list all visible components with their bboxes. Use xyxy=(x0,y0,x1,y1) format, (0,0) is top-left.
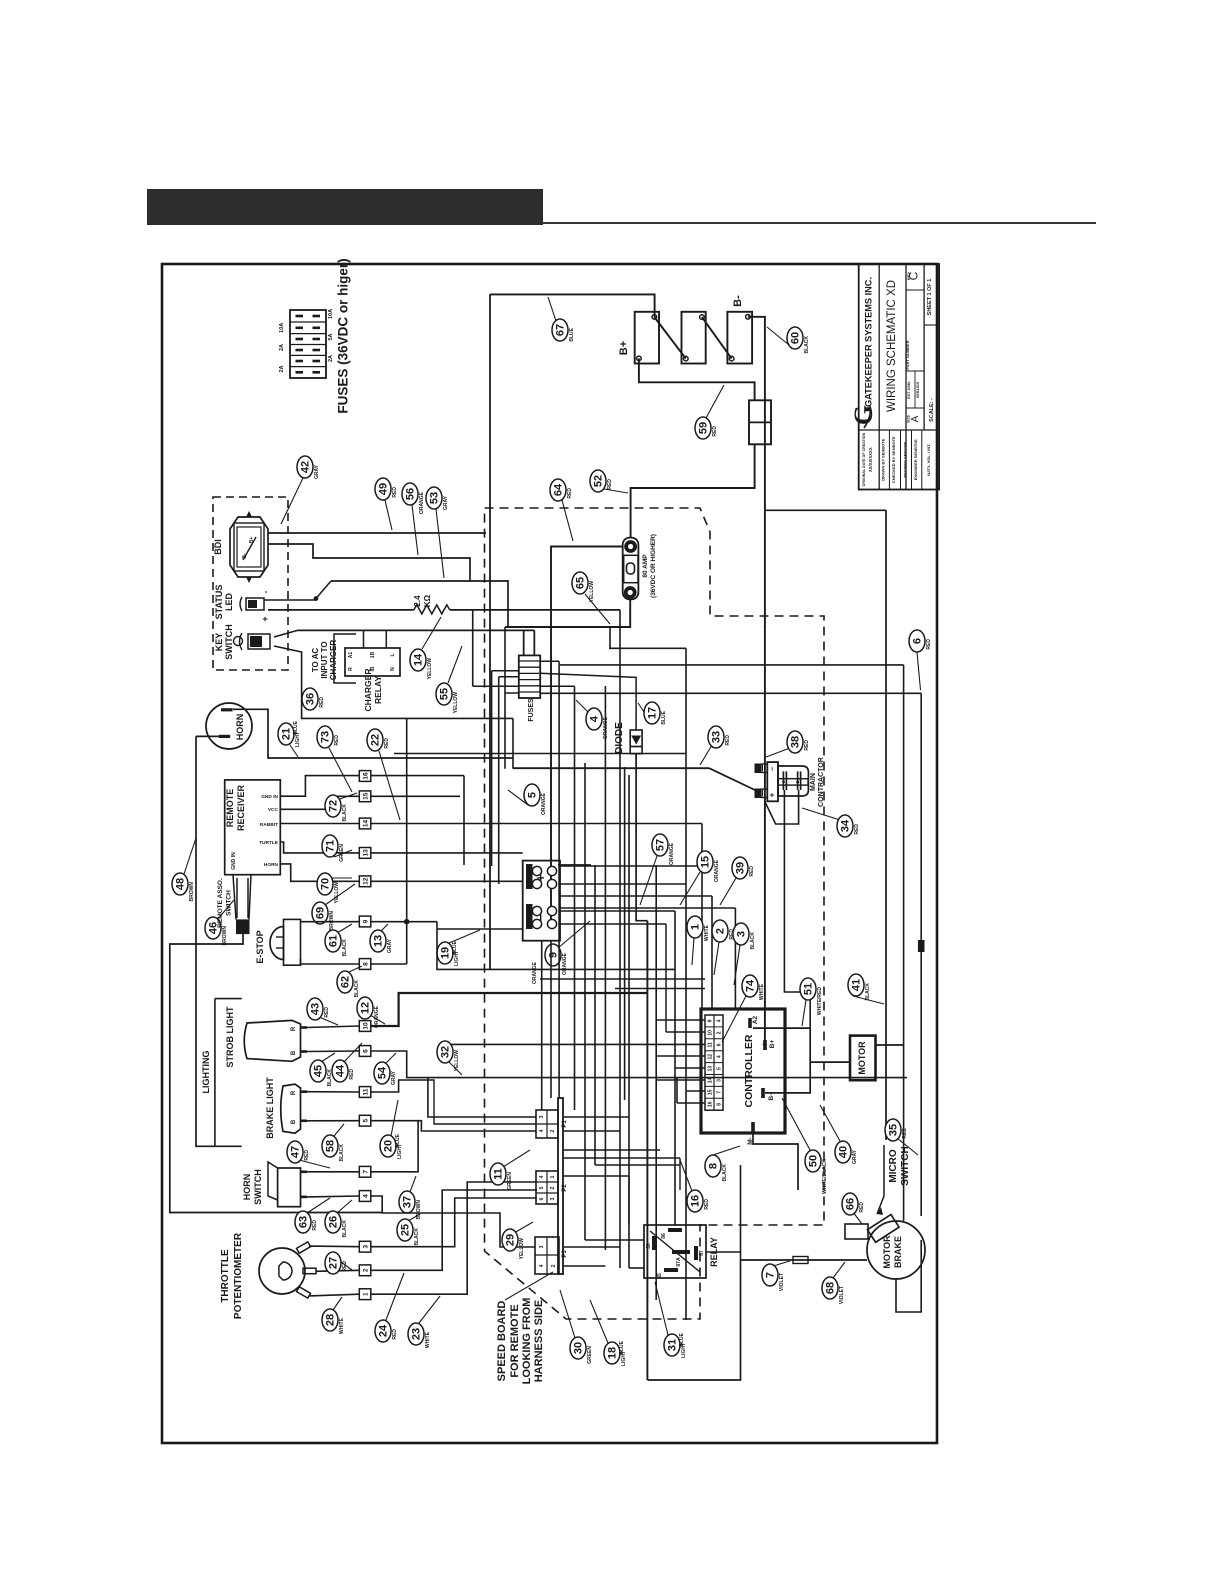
controller terminals xyxy=(748,1018,752,1028)
svg-text:50: 50 xyxy=(808,1155,820,1167)
svg-text:2: 2 xyxy=(550,1129,556,1132)
battery jumper 2 xyxy=(702,317,732,359)
wire 56 BDI xyxy=(268,544,470,581)
svg-text:YELLOW: YELLOW xyxy=(427,658,433,680)
svg-text:BLACK: BLACK xyxy=(339,1144,345,1162)
svg-text:PART NUMBER: PART NUMBER xyxy=(905,340,910,369)
svg-text:3: 3 xyxy=(539,1245,545,1248)
svg-text:54: 54 xyxy=(377,1066,389,1079)
svg-text:11: 11 xyxy=(363,1088,370,1095)
svg-text:L: L xyxy=(390,653,396,656)
svg-text:BLUE: BLUE xyxy=(661,710,667,724)
svg-text:B+: B+ xyxy=(769,1040,776,1049)
fuse block right wires xyxy=(540,660,559,662)
wire 65 breaker bottom xyxy=(505,599,630,627)
svg-text:NAT'L VOL. / INT.: NAT'L VOL. / INT. xyxy=(926,444,931,476)
wire M- down xyxy=(753,1127,798,1190)
svg-text:LOOKING FROM: LOOKING FROM xyxy=(521,1298,533,1385)
svg-text:87A: 87A xyxy=(676,1257,682,1267)
remote receiver U2 xyxy=(225,780,281,875)
svg-text:60: 60 xyxy=(790,332,802,344)
svg-text:48: 48 xyxy=(175,878,187,890)
svg-text:41: 41 xyxy=(851,979,863,991)
battery cell B1 xyxy=(635,312,659,364)
svg-text:1: 1 xyxy=(550,1175,556,1178)
wire 58 brake B xyxy=(307,1120,359,1122)
svg-text:RED: RED xyxy=(324,1007,330,1018)
svg-text:6: 6 xyxy=(912,638,924,644)
svg-text:STATUS: STATUS xyxy=(214,585,224,620)
svg-text:6: 6 xyxy=(539,1197,545,1200)
wire 71 turtle xyxy=(280,842,359,853)
svg-text:73: 73 xyxy=(320,731,332,743)
svg-text:B: B xyxy=(291,1119,297,1124)
svg-text:3: 3 xyxy=(539,1115,545,1118)
svg-text:BLACK: BLACK xyxy=(342,804,348,822)
svg-text:POTENTIOMETER: POTENTIOMETER xyxy=(233,1232,244,1319)
svg-text:RABBIT: RABBIT xyxy=(260,822,278,828)
svg-text:A: A xyxy=(910,415,921,422)
throttle potentiometer R2 xyxy=(259,1248,305,1294)
svg-text:47: 47 xyxy=(290,1146,302,1158)
speed board edge xyxy=(558,1098,563,1274)
micro switch S4 xyxy=(867,1215,899,1243)
svg-text:10A: 10A xyxy=(279,323,285,333)
svg-text:57: 57 xyxy=(655,839,667,851)
relay wires xyxy=(585,1239,644,1241)
svg-text:GREEN: GREEN xyxy=(339,844,345,862)
wire 7 violet xyxy=(706,1251,741,1253)
svg-text:BLUE: BLUE xyxy=(679,1332,685,1346)
svg-text:YELLOW: YELLOW xyxy=(453,692,459,714)
diode D1 xyxy=(630,730,642,754)
svg-text:14: 14 xyxy=(708,1078,714,1084)
wire 57 orange xyxy=(640,856,657,905)
svg-text:2A: 2A xyxy=(328,355,334,362)
svg-text:GREEN: GREEN xyxy=(587,1346,593,1364)
svg-text:4: 4 xyxy=(589,715,601,722)
svg-text:13: 13 xyxy=(363,849,370,857)
terminal block TB1 xyxy=(523,861,560,941)
svg-text:RED: RED xyxy=(704,1199,710,1210)
svg-text:SCALE: -: SCALE: - xyxy=(929,398,935,422)
svg-text:RELAY: RELAY xyxy=(373,676,383,704)
wire 23 white xyxy=(371,1182,537,1294)
svg-text:SHEET 1 OF 1: SHEET 1 OF 1 xyxy=(927,279,933,316)
svg-text:FOR REMOTE: FOR REMOTE xyxy=(509,1304,521,1377)
svg-text:8: 8 xyxy=(708,1163,720,1169)
svg-text:5A: 5A xyxy=(328,333,334,340)
BDI meter M1 xyxy=(230,517,268,577)
wire 21 gnd in xyxy=(280,776,359,797)
svg-text:63: 63 xyxy=(298,1216,310,1228)
svg-text:38: 38 xyxy=(790,736,802,748)
svg-text:28: 28 xyxy=(325,1314,337,1326)
fuse block left wires xyxy=(473,685,519,687)
horn switch S3 xyxy=(278,1168,301,1207)
svg-text:9: 9 xyxy=(708,1019,714,1022)
wire 20 light blue xyxy=(371,1080,428,1092)
wire motor feed xyxy=(810,1061,850,1063)
svg-text:HARNESS SIDE: HARNESS SIDE xyxy=(533,1300,545,1383)
svg-text:GATEKEEPER SYSTEMS INC.: GATEKEEPER SYSTEMS INC. xyxy=(864,277,874,407)
wire charger relay drops xyxy=(363,630,365,648)
svg-text:17: 17 xyxy=(647,707,659,719)
svg-text:27: 27 xyxy=(328,1257,340,1269)
wire key lower 36 xyxy=(274,646,513,718)
svg-text:−: − xyxy=(770,767,777,771)
svg-text:RED: RED xyxy=(349,1069,355,1080)
svg-text:ORANGE: ORANGE xyxy=(532,961,538,984)
svg-text:WHITE: WHITE xyxy=(704,924,710,941)
svg-text:52: 52 xyxy=(593,475,605,487)
svg-text:35: 35 xyxy=(888,1124,900,1136)
svg-text:CONTRACTOR: CONTRACTOR xyxy=(818,757,825,807)
svg-text:WHITE/RED: WHITE/RED xyxy=(817,987,823,1015)
svg-text:51: 51 xyxy=(803,983,815,995)
svg-text:LED: LED xyxy=(224,592,234,611)
svg-text:BLUE: BLUE xyxy=(452,940,458,954)
svg-text:3: 3 xyxy=(550,1197,556,1200)
svg-text:30: 30 xyxy=(646,1243,652,1249)
svg-text:CONTROLLER: CONTROLLER xyxy=(743,1034,755,1107)
wire 43 strobe R xyxy=(307,1026,359,1028)
svg-text:33: 33 xyxy=(711,731,723,743)
svg-text:2.4: 2.4 xyxy=(413,595,422,607)
svg-text:29: 29 xyxy=(505,1234,517,1246)
svg-text:2: 2 xyxy=(550,1186,556,1189)
svg-text:16: 16 xyxy=(363,772,370,780)
wire 27 pot 2 xyxy=(316,1270,359,1271)
svg-text:45: 45 xyxy=(313,1065,325,1077)
svg-text:FUSES (36VDC or higer): FUSES (36VDC or higer) xyxy=(336,258,351,413)
svg-text:+: + xyxy=(260,616,270,621)
svg-text:BROWN: BROWN xyxy=(329,911,335,931)
svg-text:YELLOW: YELLOW xyxy=(454,1050,460,1072)
svg-text:18: 18 xyxy=(607,1347,619,1359)
svg-text:21: 21 xyxy=(281,728,293,740)
svg-text:10: 10 xyxy=(708,1030,714,1036)
svg-text:67: 67 xyxy=(555,324,567,336)
svg-text:GRAY: GRAY xyxy=(852,1149,858,1164)
svg-text:RED: RED xyxy=(804,740,810,751)
connector P1 xyxy=(536,1110,558,1138)
main contactor K1 xyxy=(767,762,778,801)
wire 70 horn pin xyxy=(280,864,359,881)
svg-text:13: 13 xyxy=(708,1066,714,1072)
svg-text:EST ASM.: EST ASM. xyxy=(907,381,911,399)
svg-text:19: 19 xyxy=(440,947,452,959)
svg-text:80 AMP: 80 AMP xyxy=(642,554,649,578)
wire 66 red xyxy=(845,1224,868,1239)
wire 45 strobe B xyxy=(307,1050,359,1053)
brake wires xyxy=(896,1240,921,1312)
motor brake B1 xyxy=(867,1221,925,1279)
svg-text:A2: A2 xyxy=(752,1015,759,1024)
svg-text:MOTOR: MOTOR xyxy=(857,1041,867,1075)
svg-text:2A: 2A xyxy=(279,344,285,351)
svg-text:34: 34 xyxy=(840,819,852,832)
svg-text:WHITE: WHITE xyxy=(339,1317,345,1334)
svg-text:3: 3 xyxy=(363,1245,370,1249)
receiver plug xyxy=(233,875,236,920)
title block outer xyxy=(859,264,939,490)
svg-text:59: 59 xyxy=(698,422,710,434)
svg-text:YELLOW: YELLOW xyxy=(519,1238,525,1260)
svg-text:THROTTLE: THROTTLE xyxy=(220,1249,231,1303)
svg-text:30: 30 xyxy=(573,1342,585,1354)
svg-text:RED: RED xyxy=(312,1220,318,1231)
svg-text:65: 65 xyxy=(575,577,587,589)
svg-text:32: 32 xyxy=(440,1046,452,1058)
lighting bracket xyxy=(214,999,216,1147)
svg-text:4: 4 xyxy=(539,1264,545,1267)
svg-text:GND IN: GND IN xyxy=(261,794,278,800)
wire 25b xyxy=(371,1198,537,1247)
svg-text:GRAY: GRAY xyxy=(391,1070,397,1085)
svg-text:WHITE: WHITE xyxy=(425,1331,431,1348)
svg-text:E-STOP: E-STOP xyxy=(255,930,265,963)
wire 17 blue xyxy=(636,754,647,921)
svg-text:12: 12 xyxy=(363,877,370,885)
wire 37 brown xyxy=(371,1121,418,1172)
svg-text:70: 70 xyxy=(320,878,332,890)
status LED D2 xyxy=(246,598,264,610)
svg-text:RED: RED xyxy=(304,1150,310,1161)
svg-text:XX/XX/XXXX: XX/XX/XXXX xyxy=(868,447,873,472)
svg-text:7: 7 xyxy=(363,1170,370,1174)
svg-text:2A: 2A xyxy=(279,365,285,372)
svg-text:ORANGE: ORANGE xyxy=(562,952,568,975)
svg-text:GND IN: GND IN xyxy=(231,852,237,870)
svg-text:ORANGE: ORANGE xyxy=(541,792,547,815)
title block grid xyxy=(878,264,880,490)
svg-text:4: 4 xyxy=(717,1019,723,1022)
svg-text:ORANGE: ORANGE xyxy=(419,491,425,514)
svg-text:14: 14 xyxy=(363,820,370,828)
svg-text:10: 10 xyxy=(363,1022,370,1030)
wire 40 gray vertical xyxy=(560,664,904,666)
svg-text:RED: RED xyxy=(342,1261,348,1272)
resistor R1 2.4K xyxy=(414,605,450,614)
wire 22 rabbit xyxy=(280,823,359,825)
svg-text:56: 56 xyxy=(405,488,417,500)
e-stop switch S2 xyxy=(284,919,301,965)
wire 48 brown left bus xyxy=(170,934,382,1213)
wire 49 BDI B+ xyxy=(268,532,486,534)
svg-text:KEY: KEY xyxy=(214,633,224,652)
svg-text:31: 31 xyxy=(667,1339,679,1351)
svg-text:P2: P2 xyxy=(562,1184,568,1192)
svg-text:68: 68 xyxy=(825,1282,837,1294)
svg-text:87: 87 xyxy=(699,1250,705,1256)
svg-text:CHECKED BY SENBOTE: CHECKED BY SENBOTE xyxy=(891,436,896,483)
svg-text:RECEIVER: RECEIVER xyxy=(236,784,246,831)
inline fuse holder F2 xyxy=(749,400,771,444)
dashed BDI enclosure xyxy=(213,497,288,670)
wire 26 pot 3 xyxy=(309,1245,359,1248)
svg-text:BLUE: BLUE xyxy=(293,720,299,734)
terminal block to board wires xyxy=(541,941,543,1110)
svg-text:15: 15 xyxy=(700,856,712,868)
svg-text:SWITCH: SWITCH xyxy=(253,1169,263,1205)
svg-text:KΩ: KΩ xyxy=(423,594,432,607)
svg-text:R: R xyxy=(291,1090,297,1095)
svg-text:23: 23 xyxy=(411,1328,423,1340)
svg-text:44: 44 xyxy=(335,1064,347,1077)
svg-text:43: 43 xyxy=(310,1003,322,1015)
svg-text:BLACK: BLACK xyxy=(414,1228,420,1246)
svg-text:2: 2 xyxy=(717,1031,723,1034)
contactor coil wires xyxy=(765,790,799,824)
svg-text:RED: RED xyxy=(712,426,718,437)
wire status minus xyxy=(268,609,414,611)
wire 61 e-stop top xyxy=(301,921,360,923)
svg-text:7: 7 xyxy=(765,1272,777,1278)
svg-text:66: 66 xyxy=(845,1198,857,1210)
svg-text:SEB1015: SEB1015 xyxy=(916,382,920,398)
svg-text:YELLOW: YELLOW xyxy=(334,882,340,904)
wire 35 red xyxy=(918,940,925,952)
wire 59 B+ to fuse xyxy=(639,358,755,400)
svg-text:SWITCH: SWITCH xyxy=(224,624,234,660)
wire 64 breaker top xyxy=(551,547,623,926)
wire 4 orange xyxy=(574,686,576,769)
svg-text:4: 4 xyxy=(539,1129,545,1132)
svg-text:STROB LIGHT: STROB LIGHT xyxy=(225,1006,235,1067)
svg-text:ORANGE: ORANGE xyxy=(374,1005,380,1028)
svg-text:22: 22 xyxy=(370,734,382,746)
battery jumper 1 xyxy=(654,317,686,359)
svg-text:15: 15 xyxy=(708,1089,714,1095)
connector squares 16-12 xyxy=(359,771,371,782)
svg-text:B+: B+ xyxy=(618,341,630,355)
wire 9 orange xyxy=(437,928,523,930)
svg-text:MAIN: MAIN xyxy=(810,773,817,791)
wire 47 horn sw top xyxy=(307,1171,359,1173)
svg-text:DRAWN BY SENBOTE: DRAWN BY SENBOTE xyxy=(881,438,886,480)
wires 1 2 3 to controller xyxy=(560,895,712,897)
wire 6 red vertical xyxy=(540,692,921,694)
svg-text:42: 42 xyxy=(300,461,312,473)
svg-text:36: 36 xyxy=(305,693,317,705)
svg-text:15: 15 xyxy=(363,792,370,800)
svg-text:BRAKE LIGHT: BRAKE LIGHT xyxy=(265,1077,275,1139)
svg-text:GRAY: GRAY xyxy=(314,464,320,479)
wires 1 2 3 labels xyxy=(692,938,694,965)
svg-text:MICRO: MICRO xyxy=(888,1149,899,1183)
svg-text:64: 64 xyxy=(553,483,565,496)
wire 52b top right xyxy=(765,509,886,511)
charger relay K2 xyxy=(345,648,400,676)
svg-text:2: 2 xyxy=(363,1268,370,1272)
svg-text:13: 13 xyxy=(373,935,385,947)
svg-text:BLUE: BLUE xyxy=(569,327,575,341)
svg-text:SWITCH: SWITCH xyxy=(226,890,233,916)
svg-text:BLACK: BLACK xyxy=(865,983,871,1001)
svg-text:WIRING SCHEMATIC XD: WIRING SCHEMATIC XD xyxy=(886,280,898,412)
wire 50 white black xyxy=(782,1098,810,1150)
svg-text:14: 14 xyxy=(413,653,425,666)
svg-text:26: 26 xyxy=(328,1216,340,1228)
battery cell B3 xyxy=(727,312,752,364)
svg-text:ORANGE: ORANGE xyxy=(714,859,720,882)
svg-text:BRAKE: BRAKE xyxy=(893,1236,903,1268)
svg-text:HORN: HORN xyxy=(235,714,245,741)
svg-text:72: 72 xyxy=(328,800,340,812)
svg-text:1: 1 xyxy=(690,924,702,930)
svg-text:YELLOW: YELLOW xyxy=(589,581,595,603)
wire 41 black vertical xyxy=(885,510,887,1140)
svg-text:7: 7 xyxy=(717,1091,723,1094)
svg-text:GRAY: GRAY xyxy=(443,495,449,510)
svg-text:9: 9 xyxy=(548,952,560,958)
svg-text:2: 2 xyxy=(715,928,727,934)
svg-text:86: 86 xyxy=(661,1233,667,1239)
wire 46 brown xyxy=(236,878,238,918)
svg-text:CHARGER: CHARGER xyxy=(329,640,338,681)
svg-text:1B: 1B xyxy=(370,651,376,658)
wire 25 black xyxy=(371,1196,535,1247)
svg-text:12: 12 xyxy=(708,1054,714,1060)
drawing frame xyxy=(162,264,937,1443)
svg-text:-: - xyxy=(261,590,270,593)
svg-text:−: − xyxy=(533,914,548,922)
speed board leader xyxy=(505,1272,553,1300)
svg-text:11: 11 xyxy=(493,1168,505,1180)
svg-text:BLACK: BLACK xyxy=(722,1164,728,1182)
svg-text:B-: B- xyxy=(768,1094,775,1101)
svg-text:HORN: HORN xyxy=(242,1174,252,1201)
wire 28 pot 1 xyxy=(309,1294,359,1296)
wire A2 to motor xyxy=(753,1028,810,1093)
svg-text:25: 25 xyxy=(400,1224,412,1236)
svg-text:16: 16 xyxy=(690,1195,702,1207)
dashed speed board region xyxy=(485,508,825,1319)
wire 13 gray xyxy=(371,921,407,923)
svg-text:FUSES: FUSES xyxy=(528,698,535,722)
svg-text:RED: RED xyxy=(392,487,398,498)
wire 60 B- negative xyxy=(748,317,765,630)
controller pin header xyxy=(705,1015,723,1110)
svg-text:74: 74 xyxy=(745,979,757,992)
svg-text:BLACK: BLACK xyxy=(342,1220,348,1238)
svg-text:85: 85 xyxy=(657,1273,663,1279)
fuse bank FB1 xyxy=(290,310,326,378)
svg-text:RED: RED xyxy=(319,697,325,708)
circuit breaker 80A xyxy=(623,538,639,600)
svg-text:9: 9 xyxy=(363,919,370,923)
svg-text:4: 4 xyxy=(717,1055,723,1058)
svg-text:5: 5 xyxy=(363,1119,370,1123)
svg-text:12: 12 xyxy=(360,1002,372,1014)
svg-text:16: 16 xyxy=(708,1101,714,1107)
svg-text:C: C xyxy=(907,271,921,280)
terminal block feeds xyxy=(560,865,702,867)
svg-text:P3: P3 xyxy=(562,1250,568,1258)
svg-text:REMOTE: REMOTE xyxy=(225,789,235,828)
svg-text:A1: A1 xyxy=(348,652,354,659)
bus horizontals xyxy=(609,647,686,649)
svg-text:VIOLET: VIOLET xyxy=(839,1286,845,1304)
wire 24 red xyxy=(371,1190,537,1270)
svg-text:69: 69 xyxy=(315,907,327,919)
controller U1 xyxy=(701,1009,785,1133)
brake light E2 xyxy=(281,1084,301,1133)
svg-text:53: 53 xyxy=(429,492,441,504)
svg-text:6: 6 xyxy=(363,1049,370,1053)
svg-text:WHITE/BLACK: WHITE/BLACK xyxy=(822,1159,828,1194)
